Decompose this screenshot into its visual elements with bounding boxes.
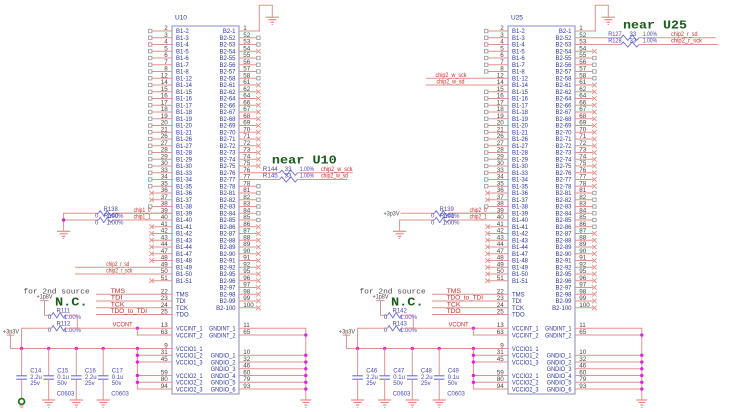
svg-text:B2-1: B2-1 (223, 29, 236, 35)
svg-text:VCONT: VCONT (113, 322, 133, 328)
svg-text:B2-57: B2-57 (555, 70, 572, 76)
svg-text:chip2_r_sck: chip2_r_sck (106, 269, 133, 275)
U10 pin 3 (B1-3) (149, 32, 190, 42)
svg-text:chip2_0: chip2_0 (470, 208, 488, 214)
power +1p8V near U25 (373, 295, 389, 301)
U10 pin 68 (B2-68) (219, 113, 260, 123)
U10 pin 98 (B2-98) (219, 288, 260, 298)
svg-text:C14: C14 (30, 369, 42, 375)
U10 pin 76 (B2-76) (219, 167, 250, 177)
svg-text:R128: R128 (608, 39, 622, 45)
U25 pin 2 (B1-2) (485, 25, 526, 35)
wire GNDINT_1 pin 11 of U25 to ground bus (575, 328, 642, 400)
wire VCCIO branch vertical (136, 349, 138, 390)
svg-text:R127: R127 (608, 32, 622, 38)
U25 pin 73 (B2-73) (555, 147, 596, 157)
svg-text:1.00%: 1.00% (443, 221, 461, 227)
annotation "near U10" (272, 155, 337, 168)
svg-text:B2-98: B2-98 (219, 292, 236, 298)
svg-text:TMS: TMS (176, 292, 189, 298)
wire R143 left lead to +3p3V bus (358, 328, 388, 348)
U25 pin 39 (B1-39) (449, 207, 529, 217)
svg-text:B2-55: B2-55 (555, 56, 572, 62)
svg-text:C0603: C0603 (447, 391, 465, 397)
U25 pin 11 (GNDINT_1) (545, 322, 586, 332)
wire VCCIO branch to pin row (473, 361, 508, 363)
svg-text:R111: R111 (57, 308, 71, 314)
wire R140 left lead (64, 219, 99, 221)
svg-text:B1-26: B1-26 (176, 137, 193, 143)
ground (left of U10) (57, 231, 70, 238)
svg-text:B1-50: B1-50 (512, 272, 529, 278)
svg-text:1.00%: 1.00% (64, 328, 82, 334)
annotation "for 2nd source" near U10 (23, 289, 89, 297)
svg-text:B1-42: B1-42 (512, 232, 529, 238)
U10 pin 38 (B1-38) (149, 201, 193, 211)
U25 pin 82 (B2-82) (555, 194, 596, 204)
svg-text:B1-50: B1-50 (176, 272, 193, 278)
svg-text:B1-8: B1-8 (512, 70, 525, 76)
wire GND pin row to ground bus (U25) (575, 334, 642, 336)
svg-text:B2-92: B2-92 (219, 265, 236, 271)
svg-text:B1-27: B1-27 (512, 144, 529, 150)
svg-text:B2-76: B2-76 (219, 171, 236, 177)
svg-text:B2-61: B2-61 (555, 83, 572, 89)
junction (U25 gnd bus) (640, 333, 643, 336)
U25 pin 77 (B2-77) (555, 174, 596, 184)
U25 pin 28 (B1-28) (485, 147, 529, 157)
svg-text:B2-82: B2-82 (219, 198, 236, 204)
wire GND pin row to ground bus (U10) (239, 368, 306, 370)
U25 pin 29 (B1-29) (485, 153, 529, 163)
U25 pin 12 (B1-12) (426, 72, 529, 82)
U10 pin 25 (TDO) (96, 309, 189, 319)
resistor R128 (33 ohm) (608, 39, 718, 48)
resistor R111 (0 ohm) (48, 308, 82, 321)
junction (U10 gnd bus) (304, 360, 307, 363)
U10 pin 6 (B1-6) (149, 52, 190, 62)
svg-text:1.00%: 1.00% (107, 221, 125, 227)
svg-text:B2-66: B2-66 (555, 103, 572, 109)
svg-text:25v: 25v (421, 381, 431, 387)
svg-text:B1-39: B1-39 (512, 211, 529, 217)
svg-text:B2-99: B2-99 (555, 299, 572, 305)
svg-text:B1-41: B1-41 (512, 225, 529, 231)
svg-text:33: 33 (630, 39, 637, 45)
junction VCONT branch (136, 327, 139, 330)
wire pin 1 of U10 to ground (239, 5, 272, 31)
U25 pin 33 (B1-33) (485, 167, 529, 177)
net label chip2_r_sck (671, 39, 703, 45)
junction (U25 gnd bus) (640, 374, 643, 377)
svg-text:B2-97: B2-97 (555, 286, 572, 292)
U10 pin 66 (B2-66) (219, 99, 260, 109)
U25 pin 4 (B1-4) (485, 39, 526, 49)
svg-text:B2-1: B2-1 (559, 29, 572, 35)
ground (below C49) (433, 400, 446, 407)
wire VCONT branch to VCCINT_2 pin 63 (473, 328, 508, 335)
wire GND pin row to ground bus (U25) (575, 354, 642, 356)
junction (U25 gnd bus) (640, 367, 643, 370)
U25 pin 96 (B2-96) (555, 275, 596, 285)
svg-text:B1-2: B1-2 (176, 29, 189, 35)
svg-text:0.1u: 0.1u (448, 375, 460, 381)
U25 pin 45 (VCCIO1_3) (497, 356, 539, 366)
svg-text:B2-55: B2-55 (219, 56, 236, 62)
resistor R142 (0 ohm) (384, 308, 418, 321)
svg-text:B1-27: B1-27 (176, 144, 193, 150)
svg-text:for 2nd source: for 2nd source (23, 289, 89, 297)
U10 pin 62 (B2-62) (219, 86, 260, 96)
svg-text:B2-87: B2-87 (555, 232, 572, 238)
svg-text:C17: C17 (112, 369, 124, 375)
svg-text:B1-37: B1-37 (512, 198, 529, 204)
IC U10 body (172, 15, 239, 395)
svg-text:chip2_w_sck: chip2_w_sck (436, 73, 468, 79)
svg-text:B2-69: B2-69 (219, 124, 236, 130)
U10 pin 69 (B2-69) (219, 120, 260, 130)
wire U25 pin 53 to R128 (575, 44, 621, 46)
svg-text:B1-47: B1-47 (512, 252, 529, 258)
junction VCONT branch (472, 327, 475, 330)
svg-text:B2-77: B2-77 (219, 178, 236, 184)
svg-text:B1-5: B1-5 (176, 49, 189, 55)
U25 pin 72 (B2-72) (555, 140, 596, 150)
ground (top, U10 pin 1) (266, 17, 279, 24)
U10 pin 24 (TCK) (96, 302, 188, 312)
U25 pin 41 (B1-41) (485, 221, 528, 231)
svg-text:B2-76: B2-76 (555, 171, 572, 177)
wire GND pin row to ground bus (U25) (575, 375, 642, 377)
U10 pin 55 (B2-55) (219, 52, 260, 62)
svg-text:B1-12: B1-12 (176, 76, 193, 82)
svg-text:chip2_w_sck: chip2_w_sck (321, 167, 353, 173)
svg-text:B1-15: B1-15 (176, 90, 193, 96)
U10 pin 91 (B2-91) (219, 255, 260, 265)
svg-text:GNDIO_4: GNDIO_4 (211, 374, 236, 380)
capacitor C17 (0.1u 50v) (98, 349, 130, 400)
svg-text:B1-49: B1-49 (176, 265, 193, 271)
svg-text:B2-74: B2-74 (219, 157, 236, 163)
junction (U10 gnd bus) (304, 367, 307, 370)
svg-text:GNDIO_1: GNDIO_1 (211, 354, 236, 360)
wire VCCIO branch to pin row (137, 388, 172, 390)
svg-text:25: 25 (497, 309, 505, 316)
junction on +3p3V bus (20, 347, 23, 350)
svg-text:TDI: TDI (111, 296, 123, 302)
svg-text:B2-54: B2-54 (219, 49, 236, 55)
capacitor C16 (2.2u 25v) (71, 349, 97, 400)
svg-text:B1-14: B1-14 (512, 83, 529, 89)
svg-text:B1-7: B1-7 (176, 63, 189, 69)
svg-text:B2-84: B2-84 (219, 211, 236, 217)
U25 pin 59 (VCCIO2_1) (497, 369, 539, 379)
U10 pin 30 (B1-30) (149, 160, 193, 170)
svg-text:51: 51 (161, 275, 169, 282)
U25 pin 63 (VCCINT_2) (497, 329, 539, 339)
svg-text:B1-28: B1-28 (512, 151, 529, 157)
U25 pin 66 (B2-66) (555, 99, 596, 109)
U25 pin 71 (B2-71) (555, 133, 596, 143)
svg-text:near U10: near U10 (272, 155, 337, 168)
svg-text:B2-89: B2-89 (555, 245, 572, 251)
U10 pin 88 (B2-88) (219, 234, 260, 244)
svg-text:B1-44: B1-44 (512, 245, 529, 251)
svg-text:B2-56: B2-56 (555, 63, 572, 69)
U25 pin 84 (B2-84) (555, 207, 596, 217)
U10 pin 56 (B2-56) (219, 59, 260, 69)
resistor R127 (33 ohm) (608, 32, 716, 41)
U25 pin 58 (B2-58) (555, 72, 596, 82)
U10 pin 21 (B1-21) (149, 126, 193, 136)
junction VCCIO branch (136, 381, 139, 384)
power +3p3V near U25 (339, 329, 355, 335)
wire GND pin row to ground bus (U25) (575, 388, 642, 390)
wire U25 pin 52 to R127 (575, 37, 621, 39)
annotation N.C. near U10 (55, 297, 88, 310)
svg-text:GNDIO_3: GNDIO_3 (211, 367, 236, 373)
svg-text:50v: 50v (112, 381, 122, 387)
U10 pin 31 (VCCIO1_2) (161, 349, 203, 359)
wire VCCIO branch to pin row (473, 388, 508, 390)
wire +1p8V stub to R111 (45, 301, 52, 316)
svg-text:B2-75: B2-75 (219, 164, 236, 170)
U25 pin 14 (B1-14) (426, 79, 529, 89)
svg-text:R143: R143 (393, 322, 408, 328)
U25 pin 78 (B2-78) (555, 180, 596, 190)
svg-text:B2-70: B2-70 (219, 130, 236, 136)
U25 pin 27 (B1-27) (485, 140, 529, 150)
svg-text:GNDIO_4: GNDIO_4 (547, 374, 572, 380)
ground (below C15) (42, 400, 55, 407)
U10 pin 53 (B2-53) (219, 39, 260, 49)
svg-text:1.00%: 1.00% (300, 167, 315, 173)
svg-text:B2-97: B2-97 (219, 286, 236, 292)
svg-text:B2-58: B2-58 (555, 76, 572, 82)
U10 pin 20 (B1-20) (149, 120, 193, 130)
svg-text:TDI: TDI (512, 299, 522, 305)
U10 pin 65 (GNDINT_2) (209, 329, 251, 339)
U10 pin 9 (VCCIO1_1) (164, 342, 203, 352)
svg-text:B2-99: B2-99 (219, 299, 236, 305)
svg-text:50v: 50v (448, 381, 458, 387)
svg-text:B1-47: B1-47 (176, 252, 193, 258)
svg-text:+3p3V: +3p3V (339, 329, 355, 335)
wire R112 left lead to +3p3V bus (22, 328, 52, 348)
svg-text:chip2_1: chip2_1 (470, 215, 488, 221)
U25 pin 47 (B1-47) (485, 248, 528, 258)
net label chip2_0 (470, 208, 488, 214)
resistor R143 (0 ohm) (384, 322, 418, 335)
svg-text:chip2_r_sck: chip2_r_sck (671, 39, 703, 45)
svg-text:B2-72: B2-72 (555, 144, 572, 150)
U10 pin 27 (B1-27) (149, 140, 193, 150)
svg-text:GNDIO_2: GNDIO_2 (211, 360, 236, 366)
wire VCCIO branch to pin row (137, 375, 172, 377)
U10 pin 42 (B1-42) (149, 228, 192, 238)
svg-text:50v: 50v (393, 381, 403, 387)
power +3p3V near U10 (3, 329, 19, 335)
svg-text:B2-96: B2-96 (555, 279, 572, 285)
svg-text:B2-90: B2-90 (555, 252, 572, 258)
svg-text:TMS: TMS (447, 289, 462, 295)
capacitor C48 (2.2u 25v) (407, 349, 433, 400)
svg-text:B1-34: B1-34 (512, 178, 529, 184)
svg-text:B1-38: B1-38 (512, 205, 529, 211)
svg-text:B1-21: B1-21 (512, 130, 529, 136)
svg-text:B1-17: B1-17 (512, 103, 529, 109)
ground (below C47) (378, 400, 391, 407)
svg-text:C46: C46 (366, 369, 378, 375)
svg-text:1.00%: 1.00% (443, 214, 461, 220)
svg-text:TMS: TMS (512, 292, 525, 298)
junction on +3p3V bus (383, 347, 386, 350)
svg-text:B1-48: B1-48 (512, 259, 529, 265)
U10 pin 11 (GNDINT_1) (209, 322, 250, 332)
U10 pin 4 (B1-4) (149, 39, 190, 49)
junction on +3p3V bus (356, 347, 359, 350)
U10 pin 89 (B2-89) (219, 241, 260, 251)
svg-text:50v: 50v (57, 381, 67, 387)
U10 pin 85 (B2-85) (219, 214, 260, 224)
U10 pin 43 (B1-43) (149, 234, 192, 244)
U10 pin 52 (B2-52) (219, 32, 260, 42)
wire GND pin row to ground bus (U10) (239, 361, 306, 363)
svg-text:B2-64: B2-64 (555, 97, 572, 103)
U25 pin 20 (B1-20) (485, 120, 529, 130)
IC U25 body (508, 15, 575, 395)
svg-text:B2-62: B2-62 (219, 90, 236, 96)
wire VCCIO branch to pin row (473, 354, 508, 356)
svg-text:B2-71: B2-71 (219, 137, 236, 143)
U25 pin 16 (B1-16) (485, 93, 529, 103)
svg-text:2.2u: 2.2u (30, 375, 42, 381)
U25 pin 3 (B1-3) (485, 32, 526, 42)
svg-text:B1-40: B1-40 (512, 218, 529, 224)
junction (U10 gnd bus) (304, 381, 307, 384)
svg-text:B2-64: B2-64 (219, 97, 236, 103)
U25 pin 15 (B1-15) (485, 86, 529, 96)
U10 pin 34 (B1-34) (149, 174, 193, 184)
U25 pin 6 (B1-6) (485, 52, 526, 62)
junction VCCIO branch (472, 374, 475, 377)
svg-text:B1-35: B1-35 (512, 184, 529, 190)
svg-text:near U25: near U25 (623, 20, 687, 33)
svg-text:B2-86: B2-86 (219, 225, 236, 231)
U10 pin 46 (GNDIO_3) (211, 363, 251, 373)
svg-text:1.00%: 1.00% (300, 174, 315, 180)
svg-text:B1-41: B1-41 (176, 225, 193, 231)
svg-text:25v: 25v (85, 381, 95, 387)
svg-text:B2-77: B2-77 (555, 178, 572, 184)
svg-text:VCCIO1_1: VCCIO1_1 (512, 347, 539, 353)
svg-text:B1-51: B1-51 (512, 279, 529, 285)
U25 pin 40 (B1-40) (449, 214, 529, 224)
svg-text:+3p3V: +3p3V (384, 211, 400, 217)
svg-text:VCCIO2_2: VCCIO2_2 (512, 381, 539, 387)
U25 pin 21 (B1-21) (485, 126, 529, 136)
svg-text:B1-18: B1-18 (512, 110, 529, 116)
junction (U10 gnd bus) (304, 374, 307, 377)
junction VCCIO branch (136, 360, 139, 363)
svg-text:B2-74: B2-74 (555, 157, 572, 163)
U10 pin 48 (B1-48) (149, 255, 192, 265)
U25 pin 91 (B2-91) (555, 255, 596, 265)
svg-text:B2-95: B2-95 (555, 272, 572, 278)
svg-text:B2-78: B2-78 (219, 184, 236, 190)
U25 pin 67 (B2-67) (555, 106, 596, 116)
U25 pin 46 (GNDIO_3) (547, 363, 587, 373)
U10 pin 92 (B2-92) (219, 261, 260, 271)
wire R142 right lead down to VCONT node (402, 315, 414, 328)
U10 pin 29 (B1-29) (149, 153, 193, 163)
svg-text:B1-3: B1-3 (512, 36, 525, 42)
U10 pin 96 (B2-96) (219, 275, 260, 285)
U10 pin 19 (B1-19) (149, 113, 193, 123)
svg-text:B1-38: B1-38 (176, 205, 193, 211)
junction (U25 gnd bus) (640, 360, 643, 363)
U10 pin 44 (B1-44) (149, 241, 192, 251)
junction (U25 gnd bus) (640, 381, 643, 384)
svg-text:R139: R139 (440, 207, 455, 213)
svg-text:B2-85: B2-85 (555, 218, 572, 224)
svg-text:0.1u: 0.1u (57, 375, 69, 381)
junction on +3p3V bus (75, 347, 78, 350)
svg-text:C49: C49 (448, 369, 460, 375)
svg-text:GNDIO_5: GNDIO_5 (547, 381, 572, 387)
U10 pin 47 (B1-47) (149, 248, 192, 258)
U10 pin 61 (B2-61) (219, 79, 260, 89)
U10 pin 23 (TDI) (96, 295, 186, 305)
U10 pin 78 (B2-78) (219, 180, 260, 190)
svg-text:B1-43: B1-43 (176, 238, 193, 244)
svg-text:0.1u: 0.1u (393, 375, 405, 381)
U10 pin 50 (B1-50) (75, 268, 193, 278)
wire VCCIO branch vertical (472, 349, 474, 390)
svg-text:B1-2: B1-2 (512, 29, 525, 35)
ground (below C46) (351, 400, 364, 407)
svg-text:B2-90: B2-90 (219, 252, 236, 258)
svg-text:B2-73: B2-73 (555, 151, 572, 157)
U25 pin 31 (VCCIO1_2) (497, 349, 539, 359)
svg-text:C0603: C0603 (393, 391, 411, 397)
U10 pin 12 (B1-12) (149, 72, 193, 82)
svg-text:B2-95: B2-95 (219, 272, 236, 278)
ground (top, U25 pin 1) (602, 17, 615, 24)
svg-text:B2-56: B2-56 (219, 63, 236, 69)
svg-text:TDO: TDO (512, 313, 525, 319)
U25 pin 51 (B1-51) (485, 275, 528, 285)
U10 pin 83 (B2-83) (219, 201, 260, 211)
U10 pin 51 (B1-51) (149, 275, 192, 285)
svg-text:GNDIO_5: GNDIO_5 (211, 381, 236, 387)
svg-text:VCCIO2_3: VCCIO2_3 (512, 387, 539, 393)
svg-text:B2-68: B2-68 (555, 117, 572, 123)
svg-text:B1-15: B1-15 (512, 90, 529, 96)
wire U10 pin 76 to R144 (239, 172, 280, 174)
ground (bottom right of U10) (301, 400, 312, 407)
svg-text:B1-14: B1-14 (176, 83, 193, 89)
U25 pin 90 (B2-90) (555, 248, 596, 258)
U10 pin 18 (B1-18) (149, 106, 193, 116)
svg-text:B1-36: B1-36 (512, 191, 529, 197)
svg-text:VCCINT_1: VCCINT_1 (512, 327, 539, 333)
U10 pin 74 (B2-74) (219, 153, 260, 163)
U25 pin 44 (B1-44) (485, 241, 528, 251)
svg-text:B2-92: B2-92 (555, 265, 572, 271)
U25 pin 9 (VCCIO1_1) (500, 342, 539, 352)
wire VCCIO branch to pin row (137, 354, 172, 356)
